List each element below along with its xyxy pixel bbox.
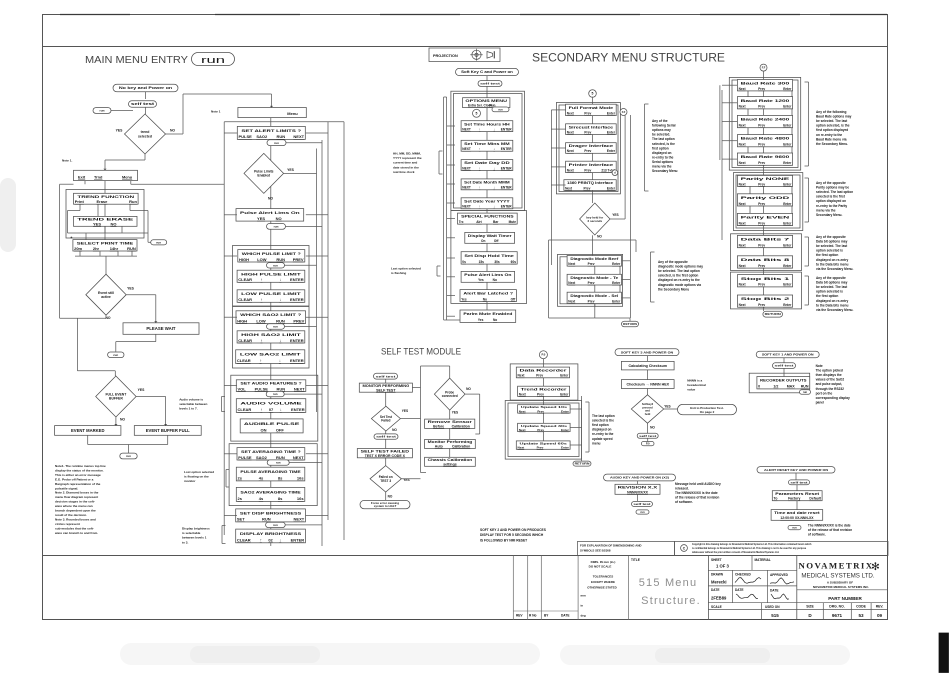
svg-text:Before: Before [433,424,444,428]
svg-text:run: run [273,392,278,396]
svg-text:WHICH SAO2 LIMIT ?: WHICH SAO2 LIMIT ? [240,312,302,317]
svg-text:RUN: RUN [276,386,285,391]
svg-text:Set Disp Hold Time: Set Disp Hold Time [464,254,514,258]
svg-text:SELF TEST: SELF TEST [376,388,396,392]
svg-text:R No: R No [529,614,536,618]
svg-text:Baud Rate 2400: Baud Rate 2400 [741,118,790,122]
svg-text:C: C [683,546,686,550]
svg-text:between levels 1: between levels 1 [182,536,207,540]
svg-text:Prev: Prev [758,243,765,247]
svg-text:diagnostic mode options may: diagnostic mode options may [658,265,703,269]
svg-text:Stop Bits 2: Stop Bits 2 [741,297,790,301]
svg-text:then displays the: then displays the [816,373,842,377]
svg-text:PREV: PREV [293,318,304,323]
svg-text:Any of the opposite: Any of the opposite [658,260,688,264]
svg-text:LOW: LOW [256,318,266,323]
svg-text:4s: 4s [259,496,264,501]
svg-text:Last option selected: Last option selected [391,267,421,271]
svg-text:system to HALT: system to HALT [374,504,397,508]
svg-text:ENTER: ENTER [290,297,304,302]
svg-text:REV: REV [516,614,523,618]
svg-text:PART NUMBER: PART NUMBER [828,596,862,601]
svg-text:ENTER: ENTER [290,338,304,343]
svg-text:self test: self test [131,102,156,106]
svg-text:Erase: Erase [96,199,108,204]
svg-text:monitor: monitor [184,479,196,483]
svg-text:sub-modules that the soft-: sub-modules that the soft- [55,526,94,530]
svg-text:Enter: Enter [783,202,792,206]
svg-text:CHECKED: CHECKED [735,573,751,577]
svg-text:corresponding display: corresponding display [816,396,850,400]
svg-text:result of the decision.: result of the decision. [55,513,87,517]
svg-text:Data Recorder: Data Recorder [520,369,569,373]
svg-text:YES: YES [257,216,265,221]
svg-text:WHICH PULSE LIMIT ?: WHICH PULSE LIMIT ? [242,251,302,256]
svg-text:2s: 2s [238,476,243,481]
svg-text:CLEAR: CLEAR [238,407,252,412]
svg-text:Enter: Enter [783,161,792,165]
svg-text:Enter: Enter [560,392,569,396]
svg-text:to the Data bits menu: to the Data bits menu [816,303,848,307]
svg-text:To: To [774,497,778,501]
svg-text:NEXT: NEXT [294,386,305,391]
svg-text:to the Data bits menu: to the Data bits menu [816,262,848,266]
svg-text:Prev: Prev [584,111,591,115]
svg-text:Next: Next [518,374,526,378]
svg-text:ALERT RESET KEY AND POWER ON: ALERT RESET KEY AND POWER ON [764,468,828,472]
svg-text:YES: YES [402,409,408,413]
svg-text:NOVAMETRIX MEDICAL SYSTEMS: NOVAMETRIX MEDICAL SYSTEMS INC. [813,585,869,589]
svg-text:displayed on: displayed on [652,151,672,155]
svg-text:YES: YES [138,388,146,392]
svg-text:D: D [808,613,812,618]
svg-text:self test: self test [376,435,396,439]
svg-text:Copyright in this drawing belo: Copyright in this drawing belongs to Nov… [692,543,812,546]
svg-text:515: 515 [771,613,779,618]
svg-text:NO: NO [388,495,393,499]
svg-text:MEDICAL SYSTEMS LTD.: MEDICAL SYSTEMS LTD. [801,573,875,580]
svg-text:↑: ↑ [260,407,262,412]
svg-text:↑: ↑ [260,297,262,302]
svg-text:APPROVED: APPROVED [770,573,789,577]
svg-text:SET ALERT LIMITS ?: SET ALERT LIMITS ? [241,128,302,133]
svg-text:↓: ↓ [279,338,281,343]
svg-text:RUN: RUN [262,517,271,522]
svg-text:mm: mm [581,594,587,598]
svg-text:PULSE: PULSE [238,455,252,460]
svg-text:self test: self test [480,82,500,86]
svg-text:current time and: current time and [393,161,417,165]
svg-text:Prev: Prev [758,123,765,127]
svg-text:panel: panel [816,400,824,404]
svg-text:Checksum → NNNN HEX: Checksum → NNNN HEX [626,382,669,386]
svg-text:NO: NO [276,216,282,221]
svg-text:run: run [276,461,281,465]
svg-text:DRG. NO.: DRG. NO. [829,605,845,609]
svg-text:held: held [645,412,651,416]
svg-text:re-entry to the Parity: re-entry to the Parity [816,204,847,208]
svg-text:Next: Next [739,264,747,268]
svg-text:Note1. The runtime menus top: Note1. The runtime menus top line [55,464,106,468]
svg-text:8s: 8s [278,496,283,501]
svg-text:2s: 2s [238,496,243,501]
svg-text:Enabled: Enabled [257,174,270,178]
svg-text:20m: 20m [74,246,82,251]
svg-text:Enter: Enter [561,428,570,432]
svg-text:P.0: P.0 [541,353,545,357]
svg-text:Enter: Enter [607,186,616,190]
svg-text:Diagnostic Mode - Te: Diagnostic Mode - Te [570,276,618,280]
svg-text:Prev: Prev [758,221,765,225]
svg-text:SCALE: SCALE [711,605,722,609]
svg-text:is floating on the: is floating on the [184,475,209,479]
svg-text:port on the: port on the [816,391,833,395]
svg-text:EVENT MARKED: EVENT MARKED [71,428,105,433]
svg-text:Baud Rate options may: Baud Rate options may [816,115,852,119]
svg-text:Enter: Enter [607,149,616,153]
svg-text:NO: NO [120,418,125,422]
svg-text:Enter: Enter [783,87,792,91]
svg-text:Prev: Prev [537,409,544,413]
svg-text:Enter: Enter [783,105,792,109]
svg-text:the first option: the first option [816,294,838,298]
svg-text:Full Format Mode: Full Format Mode [569,106,614,110]
svg-text:RUN: RUN [127,246,136,251]
svg-text:NO: NO [170,129,175,133]
svg-text:RUN: RUN [801,385,809,389]
svg-text:Next: Next [739,143,747,147]
svg-text:EXCEPT WHERE: EXCEPT WHERE [591,580,615,584]
svg-text:Next: Next [739,182,747,186]
svg-text:displayed on re-entry: displayed on re-entry [816,299,848,303]
svg-text:Prev: Prev [758,303,765,307]
svg-text:menu via the: menu via the [816,208,836,212]
svg-text:of software.: of software. [808,533,826,537]
svg-text:Enter: Enter [612,262,621,266]
svg-text:TITLE: TITLE [631,558,640,562]
svg-text:Any of the opposite: Any of the opposite [816,235,846,239]
svg-text:MATERIAL: MATERIAL [755,558,771,562]
svg-text:run: run [274,141,279,145]
svg-text:Yes: Yes [478,278,484,282]
svg-text:SAO2: SAO2 [256,455,268,460]
svg-text:Enter: Enter [783,182,792,186]
svg-text:Menu: Menu [287,111,298,116]
svg-text:E.G. Probe off Patient or a: E.G. Probe off Patient or a [55,477,94,481]
svg-text:connected: connected [442,394,458,398]
svg-text:option selected is: option selected is [816,249,843,253]
svg-text:Sirecust Interface: Sirecust Interface [569,125,614,129]
svg-text:option displayed on: option displayed on [816,199,846,203]
svg-text:YES: YES [612,213,618,217]
svg-text:LOW SAO2 LIMIT: LOW SAO2 LIMIT [240,352,302,357]
svg-text:Prev: Prev [537,428,544,432]
svg-text:Data Bits 7: Data Bits 7 [741,238,790,242]
svg-text:Next: Next [567,149,575,153]
svg-text:ENTER: ENTER [501,147,513,151]
svg-text:Enter: Enter [607,111,616,115]
svg-text:PROJECTION: PROJECTION [433,54,458,58]
svg-text:DISPLAY BRIGHTNESS: DISPLAY BRIGHTNESS [240,531,302,536]
svg-text:LOW PULSE LIMIT: LOW PULSE LIMIT [241,291,302,296]
svg-text:Prev: Prev [537,445,544,449]
svg-text:DIMS. IN mm (in.): DIMS. IN mm (in.) [591,560,616,564]
svg-text:Time and date reset: Time and date reset [774,511,821,515]
svg-text:self test: self test [633,502,650,506]
svg-text:↑: ↑ [260,537,262,542]
svg-text:Serial options: Serial options [652,160,673,164]
svg-text:↓: ↓ [279,537,281,542]
svg-text:run: run [273,263,278,267]
svg-text:CLEAR: CLEAR [237,537,251,542]
svg-text:OFF: OFF [276,428,285,433]
svg-text:HIGH PULSE LIMIT: HIGH PULSE LIMIT [241,271,302,276]
svg-text:Enter: Enter [561,409,570,413]
svg-text:2 seconds: 2 seconds [587,219,602,223]
svg-text:Mute: Mute [509,220,517,224]
svg-text:FOR EXPLANATION OF DIMENSIONIN: FOR EXPLANATION OF DIMENSIONING AND [580,544,642,548]
svg-text:the Secondary Menu.: the Secondary Menu. [816,142,848,146]
svg-text:AUDIO VOLUME: AUDIO VOLUME [240,400,302,405]
svg-text:AUDIBLE PULSE: AUDIBLE PULSE [244,421,300,426]
svg-text:YES: YES [93,221,101,226]
svg-text:P.0: P.0 [646,442,650,446]
svg-text:✻: ✻ [871,561,880,573]
svg-text:OPTIONS MENU: OPTIONS MENU [465,99,508,103]
svg-text:↓: ↓ [280,407,282,412]
svg-text:SIZE: SIZE [806,605,814,609]
svg-text:MAX: MAX [787,385,796,389]
svg-text:RECORDER OUTPUTS: RECORDER OUTPUTS [760,379,807,383]
svg-text:SYMBOLS SEE BS308: SYMBOLS SEE BS308 [580,549,611,553]
svg-text:Parity ODD: Parity ODD [741,196,792,200]
svg-text:Next: Next [739,283,747,287]
svg-text:NO: NO [268,197,273,201]
svg-text:Enter: Enter [783,123,792,127]
svg-text:run: run [126,454,131,458]
svg-text:Enter: Enter [783,264,792,268]
svg-text:released.: released. [675,487,689,491]
svg-text:Prev: Prev [758,143,765,147]
svg-text:Next: Next [519,409,526,413]
svg-text:selected is the: selected is the [592,419,614,423]
svg-text:REV.: REV. [876,605,884,609]
svg-text:Prev: Prev [584,130,591,134]
svg-text:The last option: The last option [592,414,615,418]
svg-text:IS FOLLOWED BY NMI RESET: IS FOLLOWED BY NMI RESET [480,538,527,542]
svg-text:F.F: F.F [622,110,626,114]
svg-text:Auto: Auto [435,445,443,449]
svg-text:display the status of the moni: display the status of the monitor. [55,468,104,472]
svg-text:pulsatile signal.: pulsatile signal. [55,486,78,490]
svg-text:Any of the opposite: Any of the opposite [816,181,846,185]
svg-text:NEXT: NEXT [294,517,305,522]
svg-text:Trc: Trc [459,220,464,224]
svg-text:be selected. The last: be selected. The last [816,285,848,289]
svg-text:SET: SET [237,517,245,522]
svg-text:NOVAMETRIX: NOVAMETRIX [799,561,874,571]
svg-text:run: run [156,240,161,244]
svg-text:Bargraph representation of the: Bargraph representation of the [55,482,101,486]
svg-text:in: in [581,604,584,608]
svg-text:be selected. The last: be selected. The last [816,244,848,248]
svg-text:self test: self test [639,434,656,438]
svg-text:Next: Next [739,243,747,247]
svg-text:Set Time Hours HH: Set Time Hours HH [464,122,511,126]
svg-text:Prev: Prev [758,87,765,91]
svg-text:NEXT: NEXT [462,166,471,170]
svg-text:ENTER: ENTER [290,277,304,282]
svg-text:↓: ↓ [279,277,281,282]
svg-text:Alrt: Alrt [476,220,482,224]
svg-text:first option: first option [592,423,609,427]
svg-text:Prev: Prev [758,161,765,165]
svg-text:re-entry to the: re-entry to the [592,432,614,436]
svg-text:MAIN MENU ENTRY: MAIN MENU ENTRY [85,54,188,66]
svg-text:12:00:00 XX-NNN-XX: 12:00:00 XX-NNN-XX [780,516,814,520]
svg-text:SOFT KEY 3 AND POWER ON: SOFT KEY 3 AND POWER ON [621,350,674,354]
svg-text:Next: Next [567,130,575,134]
svg-text:07: 07 [269,407,274,412]
svg-text:NEXT: NEXT [462,147,471,151]
svg-text:PLEASE WAIT: PLEASE WAIT [146,326,176,331]
svg-text:Enter: Enter [612,299,621,303]
svg-text:PULSE: PULSE [239,134,253,139]
svg-text:via the Secondary Menu.: via the Secondary Menu. [816,267,853,271]
svg-text:selected is the first: selected is the first [816,195,846,199]
svg-text:CLEAR: CLEAR [238,277,252,282]
svg-text:run: run [274,224,279,228]
svg-text:Next: Next [568,281,576,285]
svg-text:Next: Next [739,221,747,225]
svg-text:Baud Rate 300: Baud Rate 300 [741,81,790,85]
svg-text:Next: Next [739,87,747,91]
svg-text:through the RS232: through the RS232 [816,387,845,391]
svg-text:Next: Next [739,202,747,206]
svg-text:the Secondary Menu: the Secondary Menu [658,287,689,291]
svg-text:Next: Next [565,186,573,190]
svg-text:RUN: RUN [276,455,285,460]
svg-text:is flashing: is flashing [391,271,406,275]
svg-text:real time clock: real time clock [393,170,415,174]
svg-text:1 OF 3: 1 OF 3 [716,564,729,569]
svg-text:YES: YES [116,129,124,133]
svg-text:14hr: 14hr [110,246,119,251]
svg-text:ware where the menu can: ware where the menu can [54,504,93,508]
svg-text:Set Time Mins MM: Set Time Mins MM [464,142,510,146]
svg-text:SAO2 AVERAGING TIME: SAO2 AVERAGING TIME [240,489,301,494]
svg-text:Merecki: Merecki [711,580,727,585]
svg-text:Enter: Enter [561,445,570,449]
svg-text:PULSE AVERAGING TIME: PULSE AVERAGING TIME [240,469,301,474]
svg-text:ON: ON [260,428,266,433]
svg-text:RETURN: RETURN [765,312,781,316]
svg-text:NEXT: NEXT [462,205,471,209]
svg-text:NO: NO [597,235,602,239]
svg-text:Parameters Reset: Parameters Reset [775,492,820,496]
svg-text:YES: YES [664,405,670,409]
svg-text:PREV: PREV [293,257,304,262]
svg-text:Trnd: Trnd [94,174,103,179]
svg-text:run: run [273,325,278,329]
svg-text:SOFT KEY 2 AND POWER ON PRODUC: SOFT KEY 2 AND POWER ON PRODUCES [480,528,547,532]
svg-text:No: No [493,318,497,322]
svg-text:Yes: Yes [478,318,484,322]
svg-text:RUN: RUN [276,134,285,139]
svg-text:options may: options may [652,128,671,132]
svg-text:TEST X ERROR CODE X: TEST X ERROR CODE X [365,454,406,458]
svg-text:Prev: Prev [584,149,591,153]
svg-text:Baud Rate menu via: Baud Rate menu via [816,137,847,141]
svg-text:Enter: Enter [607,130,616,134]
svg-text:0: 0 [758,385,760,389]
svg-text:of the release of that revisio: of the release of that revision [675,496,719,500]
svg-text:RUN: RUN [276,318,285,323]
svg-text:Pulse Alert Lims On: Pulse Alert Lims On [464,273,511,277]
svg-text:via the Secondary Menu.: via the Secondary Menu. [816,308,853,312]
svg-text:ENTER: ENTER [291,537,305,542]
svg-text:Next: Next [567,168,575,172]
svg-text:be selected. The last option: be selected. The last option [658,269,700,273]
svg-text:NEXT: NEXT [462,186,471,190]
svg-text:self test: self test [790,480,807,484]
svg-text:Display brightness: Display brightness [182,527,210,531]
svg-text:YES: YES [127,287,135,291]
svg-text:Message held until AUDIO key: Message held until AUDIO key [675,482,721,486]
svg-text:RUN: RUN [276,257,285,262]
svg-text:Any of the opposite: Any of the opposite [816,276,846,280]
svg-text:DATE: DATE [770,589,778,593]
svg-text:The last option: The last option [652,137,675,141]
svg-text:Printer Interface: Printer Interface [569,163,614,167]
svg-text:HH, MM, DD, MMM,: HH, MM, DD, MMM, [393,152,421,156]
svg-text:run: run [498,107,503,111]
svg-text:TEST 3: TEST 3 [380,479,391,483]
svg-text:Prev: Prev [537,392,544,396]
svg-text:Note 1.: Note 1. [62,159,72,163]
svg-text:following Serial: following Serial [652,124,676,128]
svg-text:branch dependent upon the: branch dependent upon the [55,509,96,513]
svg-text:selectable between: selectable between [179,402,207,406]
svg-text:The option picked: The option picked [816,369,843,373]
svg-text:Baud Rate 1200: Baud Rate 1200 [741,99,790,103]
svg-text:YYYY represent the: YYYY represent the [393,156,422,160]
svg-text:re-entry to the: re-entry to the [652,155,674,159]
svg-text:Yes: Yes [461,297,467,301]
svg-text:SELF TEST MODULE: SELF TEST MODULE [381,347,461,357]
svg-text:SOFT KEY 1 AND POWER ON: SOFT KEY 1 AND POWER ON [762,353,814,357]
svg-text:2hr: 2hr [93,246,100,251]
svg-text:ENTER: ENTER [501,166,513,170]
svg-text:to 3.: to 3. [182,540,189,544]
svg-text:run: run [113,353,118,357]
svg-text:Next: Next [567,111,575,115]
svg-text:SELECT PRINT TIME: SELECT PRINT TIME [77,240,134,245]
svg-text:value: value [687,388,695,392]
svg-text:BUFFER: BUFFER [109,397,123,401]
svg-text:Alert Bar Latched ?: Alert Bar Latched ? [463,292,513,296]
svg-text:is confidential belongs to Nov: is confidential belongs to Novametrix Me… [692,547,807,550]
svg-text:SET AUDIO FEATURES ?: SET AUDIO FEATURES ? [240,381,302,386]
svg-text:PULSE: PULSE [255,386,269,391]
svg-text:Structure.: Structure. [641,595,701,607]
svg-text:Pulse Alert Lims On: Pulse Alert Lims On [240,210,300,215]
svg-text:Calibration: Calibration [452,445,470,449]
svg-text:selected, is the first option: selected, is the first option [658,274,698,278]
svg-text:↓: ↓ [279,297,281,302]
svg-text:Prev: Prev [758,283,765,287]
svg-text:RETURN: RETURN [623,322,637,326]
